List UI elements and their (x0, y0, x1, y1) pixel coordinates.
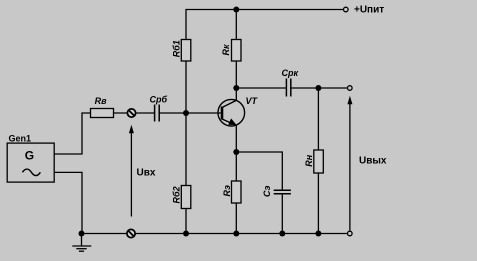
wire: Rк/collector branch vertical (235, 10, 237, 101)
svg-text:Срб: Срб (150, 95, 168, 105)
junction: ground rail / Cэ (279, 231, 285, 237)
arrow Uвых (347, 96, 352, 231)
junction: ground rail / Rэ (233, 231, 239, 237)
wire: Срк to output terminal (291, 87, 348, 89)
wire: top +Uпит rail (185, 9, 343, 11)
connector: input bottom (circle with slash) (127, 229, 135, 237)
resistor Rв (91, 109, 114, 118)
svg-text:Uвх: Uвх (137, 168, 156, 179)
svg-text:Cэ: Cэ (262, 186, 272, 197)
wire: emitter branch vertical (235, 125, 237, 233)
junction: ground rail / Rб2 (183, 231, 189, 237)
svg-text:+Uпит: +Uпит (354, 4, 384, 15)
capacitor Cэ (274, 190, 291, 194)
capacitor Срб (155, 105, 160, 122)
svg-text:Gen1: Gen1 (9, 134, 32, 144)
resistor Rэ (232, 181, 242, 203)
svg-text:Rб1: Rб1 (172, 40, 182, 57)
wire: Rн branch vertical (317, 88, 319, 234)
wire: emitter bypass branch (236, 152, 282, 190)
resistor Rб2 (181, 186, 191, 209)
connector: input top (circle with slash) (127, 109, 135, 117)
terminal: output top (348, 86, 353, 91)
wire: Срб to base (159, 112, 221, 114)
arrow Uвх (129, 125, 134, 217)
wire: collector output tap (236, 87, 286, 89)
wire: Rб1/Rб2 branch vertical (185, 10, 187, 234)
junction: top rail / Rк (233, 7, 239, 13)
capacitor Срк (286, 79, 290, 97)
svg-text:Rн: Rн (304, 154, 314, 166)
resistor Rк (232, 40, 242, 62)
svg-text:Rэ: Rэ (222, 185, 232, 196)
junction: output / Rн tap (315, 85, 321, 91)
wire: Cэ to bottom rail (281, 194, 283, 234)
svg-text:Uвых: Uвых (359, 156, 387, 167)
wire: input wire Rв to Срб (114, 112, 155, 114)
wire: generator bottom lead to ground rail (54, 172, 82, 233)
ground (72, 234, 91, 252)
junction: emitter node (233, 149, 239, 155)
transistor VT (218, 99, 245, 126)
wire: generator top lead to input (54, 113, 90, 154)
resistor Rн (314, 150, 324, 173)
generator Gen1 (7, 143, 54, 182)
svg-text:G: G (25, 148, 34, 162)
junction: ground rail / generator (79, 231, 85, 237)
junction: collector output tap (233, 85, 239, 91)
junction: base node (183, 110, 189, 116)
resistor Rб1 (181, 40, 191, 62)
terminal: output bottom (348, 231, 353, 236)
svg-text:Rб2: Rб2 (172, 186, 182, 203)
junction: ground rail / Rн (315, 231, 321, 237)
svg-text:Rв: Rв (95, 96, 107, 106)
terminal +Uпит (344, 7, 349, 12)
wire: bottom ground rail (82, 233, 348, 235)
svg-text:VT: VT (246, 96, 259, 106)
svg-text:Rк: Rк (221, 44, 231, 55)
svg-text:Срк: Срк (282, 68, 299, 78)
